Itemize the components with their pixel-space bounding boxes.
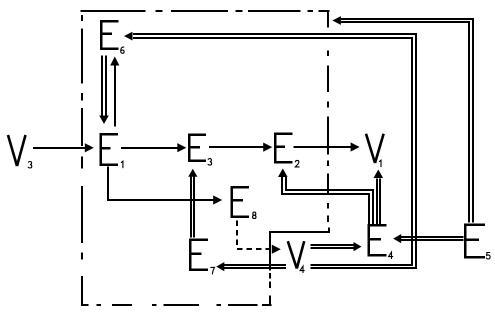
- arrow V3 to E1: [33, 143, 94, 152]
- node E6: [101, 21, 124, 53]
- double arrow E4 up to V1: [374, 170, 384, 226]
- node E8: [232, 187, 256, 218]
- arrow E1 to E3: [121, 143, 186, 152]
- boundary left dash-dot line: [81, 15, 83, 306]
- node E1: [101, 134, 123, 168]
- boundary jog (solid step around V4 region): [269, 227, 330, 306]
- node V3: [8, 135, 32, 168]
- double arrow E7 up to E3: [188, 169, 197, 238]
- arrow E1 up to E6 (single): [110, 57, 119, 127]
- double arrow E6 down to E1: [99, 56, 109, 125]
- bent double arrow E4 up-left-up to E2: [278, 169, 373, 226]
- node E5: [465, 225, 490, 259]
- boundary right dash-dot line: [327, 10, 329, 222]
- node V1: [366, 134, 384, 167]
- node V4: [288, 241, 304, 272]
- arrow E2 to V1: [294, 142, 360, 151]
- node E4: [369, 225, 393, 259]
- node E3: [189, 135, 211, 166]
- arrow E3 to E2: [209, 143, 272, 152]
- double arrow V4 left to E7: [216, 262, 285, 271]
- double arrow V4 right to E4: [311, 242, 362, 251]
- double arrow E5 left to E4: [393, 234, 463, 243]
- boundary top dash-dot line: [81, 10, 330, 12]
- node E2: [275, 134, 299, 167]
- wire E1 down-right to E8 with arrow: [108, 167, 222, 205]
- boundary bottom dash-dot line: [81, 304, 271, 306]
- wire V4 right-up-left to E6 (double line with arrow at E6): [124, 32, 416, 268]
- wire E5 up-left to boundary (double line with arrow): [332, 16, 473, 222]
- node E7: [190, 240, 215, 274]
- dashed arrow E8 to V4: [237, 221, 281, 254]
